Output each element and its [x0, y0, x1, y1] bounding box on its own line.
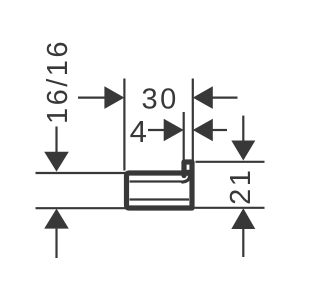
hook inner filler	[186, 170, 190, 176]
svg-text:21: 21	[225, 168, 257, 205]
profile inner top line	[130, 180, 182, 182]
profile inner bottom line	[130, 198, 190, 200]
arrowhead left at x191.8 y97.5	[193, 86, 213, 109]
arrowhead down at x56.5	[44, 152, 69, 172]
svg-text:4: 4	[130, 114, 147, 149]
left down arrow tail	[55, 127, 57, 153]
dim 16/16 leader line	[78, 96, 105, 98]
dim 4 right tail	[212, 129, 227, 131]
right up arrow tail	[242, 229, 244, 257]
right bottom extension line	[195, 207, 265, 209]
vertical extension line right	[192, 79, 194, 162]
svg-text:30: 30	[141, 83, 178, 115]
profile inner curl	[183, 172, 190, 183]
arrowhead right at x125.5	[104, 86, 124, 109]
arrowhead up at x243.3	[231, 208, 255, 229]
bar top line	[36, 172, 128, 174]
arrowhead down at x243.3	[231, 141, 255, 161]
vertical extension line middle	[183, 112, 185, 160]
right top extension line	[196, 161, 265, 163]
svg-text:16/16: 16/16	[42, 39, 74, 124]
arrowhead right at x183.8 y129	[164, 119, 184, 142]
left up arrow tail	[55, 229, 57, 258]
right down arrow tail	[242, 116, 244, 141]
dim 30 right tail	[212, 96, 238, 98]
dim 4 left tail	[148, 129, 164, 131]
profile hook lip	[184, 162, 192, 207]
arrowhead left at x191.8 y129	[193, 119, 213, 142]
arrowhead up at x56.5	[44, 209, 69, 229]
profile outline	[127, 173, 193, 208]
vertical extension line left	[123, 79, 125, 171]
bar bottom line	[36, 207, 128, 209]
